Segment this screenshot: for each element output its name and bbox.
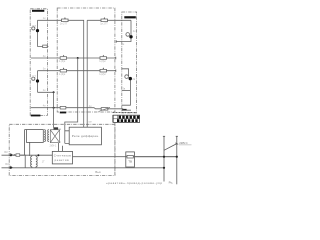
svg-text:ТВ: ТВ xyxy=(128,159,132,163)
svg-text:1-(3)и: 1-(3)и xyxy=(59,60,66,63)
svg-text:1-(3)и: 1-(3)и xyxy=(99,60,106,63)
svg-text:ЗМ: ЗМ xyxy=(4,151,7,154)
svg-text:1-(2)и: 1-(2)и xyxy=(99,73,106,76)
svg-text:1-(2)и: 1-(2)и xyxy=(59,73,66,76)
svg-text:Вых: Вых xyxy=(95,170,101,174)
svg-text:Реле дифферен.: Реле дифферен. xyxy=(72,134,100,138)
svg-text:Рц: Рц xyxy=(169,180,173,184)
svg-text:ЗМ: ЗМ xyxy=(5,163,8,166)
svg-text:1и 2ТТ: 1и 2ТТ xyxy=(100,23,108,26)
svg-text:1ТТ: 1ТТ xyxy=(32,25,37,28)
svg-text:«реактив»-провод-розово-упр: «реактив»-провод-розово-упр xyxy=(106,181,162,185)
svg-text:2КВтС: 2КВтС xyxy=(179,141,188,145)
svg-text:реактив: реактив xyxy=(55,158,70,162)
svg-text:2ИХ-1: 2ИХ-1 xyxy=(50,144,57,147)
svg-text:2ТТ: 2ТТ xyxy=(32,75,37,78)
svg-text:1и 2ТТ: 1и 2ТТ xyxy=(60,23,68,26)
